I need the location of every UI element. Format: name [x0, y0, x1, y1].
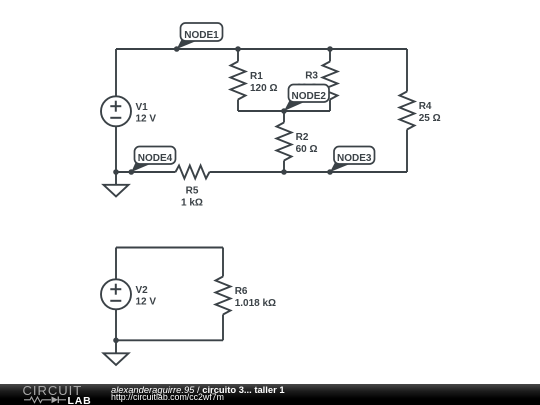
svg-text:R5: R5	[186, 185, 199, 196]
svg-text:V2: V2	[136, 285, 149, 296]
svg-text:12 V: 12 V	[136, 114, 157, 125]
svg-text:R1: R1	[250, 71, 263, 82]
svg-text:R3: R3	[305, 71, 318, 82]
svg-text:NODE1: NODE1	[184, 30, 219, 41]
svg-text:R4: R4	[419, 101, 432, 112]
svg-text:12 V: 12 V	[136, 297, 157, 308]
svg-text:NODE4: NODE4	[138, 153, 173, 164]
svg-text:NODE2: NODE2	[292, 91, 327, 102]
svg-text:R2: R2	[296, 132, 309, 143]
svg-text:60 Ω: 60 Ω	[296, 144, 318, 155]
svg-text:120 Ω: 120 Ω	[250, 83, 277, 94]
svg-text:1 kΩ: 1 kΩ	[181, 197, 203, 208]
svg-text:1.018 kΩ: 1.018 kΩ	[235, 298, 276, 309]
svg-text:LAB: LAB	[68, 395, 92, 405]
svg-text:V1: V1	[136, 102, 149, 113]
svg-text:25 Ω: 25 Ω	[419, 113, 441, 124]
svg-text:R6: R6	[235, 286, 248, 297]
svg-text:NODE3: NODE3	[337, 153, 372, 164]
